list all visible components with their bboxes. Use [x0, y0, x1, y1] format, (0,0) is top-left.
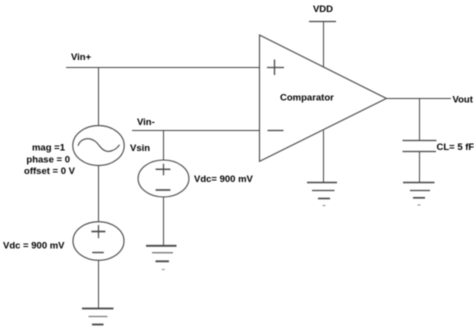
svg-text:Comparator: Comparator: [280, 93, 334, 104]
capacitor CL: [403, 141, 437, 152]
wire Vsin to Vdc1: [98, 166, 100, 222]
wire Vin- net horizontal: [132, 130, 260, 132]
source Vsin (sinusoidal voltage source): [73, 126, 124, 166]
wire Vdc2 to ground G2: [163, 197, 165, 246]
ground G2: [146, 246, 177, 270]
svg-text:Vin+: Vin+: [71, 52, 92, 63]
ground G4: [403, 183, 435, 206]
wire Vin+ net horizontal: [66, 67, 260, 69]
svg-text:Vout: Vout: [453, 95, 474, 106]
svg-text:Vsin: Vsin: [130, 143, 150, 154]
svg-text:mag =1: mag =1: [32, 143, 66, 154]
svg-text:VDD: VDD: [313, 4, 333, 15]
wire Vin+ down to Vsin: [98, 68, 100, 127]
wire Vin- down to Vdc2: [163, 131, 165, 161]
svg-text:offset = 0 V: offset = 0 V: [24, 166, 76, 177]
source Vdc2 (DC voltage source 900 mV): [138, 160, 189, 197]
wire Vdc1 to ground G1: [98, 260, 100, 308]
svg-text:Vdc= 900 mV: Vdc= 900 mV: [194, 174, 254, 185]
wire VDD to comparator top: [323, 22, 325, 68]
svg-text:Vin-: Vin-: [137, 117, 155, 128]
comparator + input pin marker: [267, 60, 284, 76]
wire comparator bottom to ground G3: [323, 131, 325, 183]
wire output down to capacitor CL: [419, 99, 421, 141]
ground G3: [307, 183, 337, 206]
svg-text:phase = 0: phase = 0: [26, 155, 70, 166]
op-amp U1 comparator triangle: [260, 35, 387, 161]
svg-text:CL= 5 fF: CL= 5 fF: [437, 142, 474, 153]
svg-text:Vdc = 900 mV: Vdc = 900 mV: [3, 241, 65, 252]
source Vdc1 (DC voltage source 900 mV): [73, 222, 124, 261]
comparator - input pin marker: [268, 130, 284, 132]
wire capacitor to ground G4: [419, 152, 421, 183]
ground G1: [82, 309, 114, 325]
power VDD rail bar: [309, 21, 336, 23]
wire comparator output: [386, 98, 451, 100]
